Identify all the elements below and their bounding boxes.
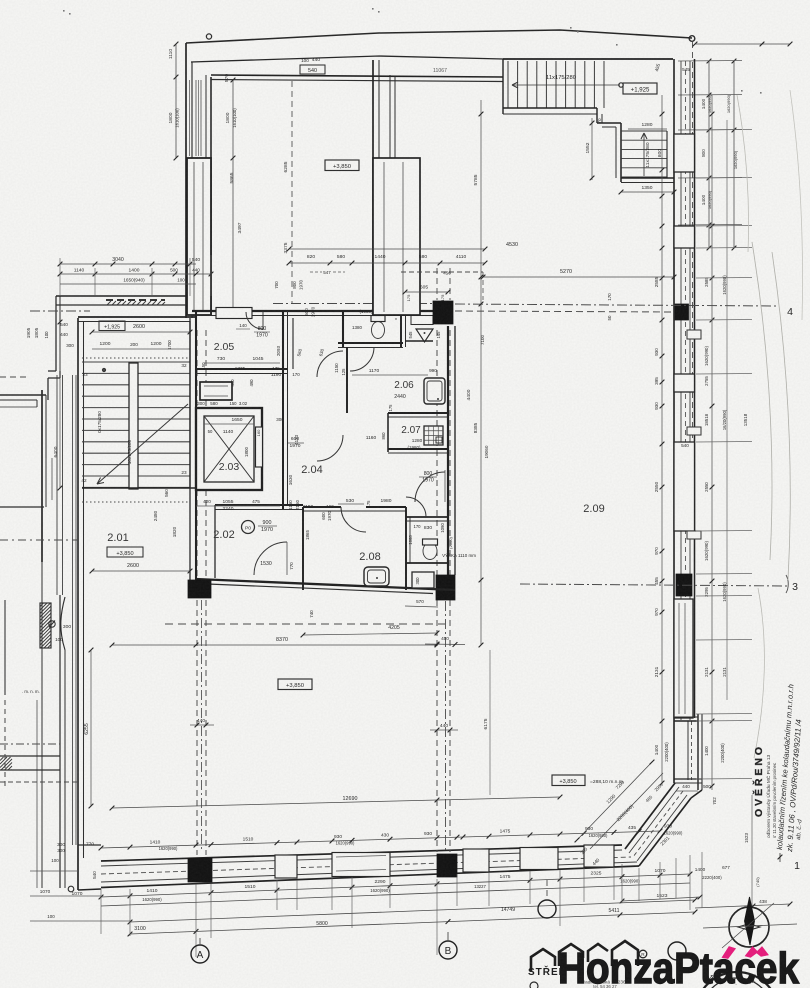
stair treads xyxy=(82,361,190,363)
stair dot marker xyxy=(102,368,105,371)
small stair arrow xyxy=(643,133,645,176)
bottom vertical extension lines xyxy=(100,889,102,934)
chamfer band line3 xyxy=(637,795,687,861)
extension lines above stairs xyxy=(59,258,61,296)
right wall outer face xyxy=(694,59,696,718)
column grid A mid xyxy=(188,580,211,598)
grid bubble C behind logo xyxy=(668,942,686,960)
chamfer band dashed center xyxy=(633,791,683,857)
grid axis 4 dash-dot right segment xyxy=(455,304,778,306)
page fold curve 2 xyxy=(772,252,790,580)
grid axis 4 dash-dot left segment xyxy=(30,310,90,312)
terrace left wall xyxy=(502,59,504,114)
upper annex wall dashes xyxy=(106,299,165,301)
bottom wall left corner xyxy=(77,845,79,890)
grid axis A dashed pair xyxy=(196,330,198,855)
grid bubble B xyxy=(439,941,457,959)
grid bubble A xyxy=(191,945,209,963)
bottom dim row B xyxy=(101,874,690,897)
west upper wall line 3 xyxy=(205,75,207,158)
west upper wall outer line xyxy=(185,43,187,318)
wc top right wall xyxy=(400,311,402,347)
second dash line grid4 xyxy=(455,311,674,312)
west wall inner xyxy=(83,322,85,858)
dimension line 4530 xyxy=(289,248,485,250)
elevation box +3,850 room 2.01 xyxy=(107,547,143,557)
door arc wc top xyxy=(350,347,374,371)
page fold curve 3 xyxy=(737,95,749,252)
elevation box +1,925 terrace xyxy=(623,83,657,94)
neighbour wall hatch block xyxy=(40,603,51,648)
room 2.07 bottom wall xyxy=(388,448,448,450)
diagonal dim line 1 xyxy=(577,762,652,840)
window pier 3 xyxy=(674,374,695,392)
dimension 540 boxed xyxy=(300,65,325,74)
scan noise overlay xyxy=(0,0,1,1)
stair walk line diagonal xyxy=(97,404,188,484)
washing machine grid xyxy=(424,426,443,445)
site boundary line inner xyxy=(191,56,503,62)
door arc room 2.05 xyxy=(246,312,263,329)
window sill marker 3 xyxy=(687,531,701,539)
wall below bath xyxy=(346,347,348,413)
dimension row 1650(940) xyxy=(60,283,196,285)
window sill marker 2 xyxy=(687,427,701,435)
right wall inner face xyxy=(673,59,675,783)
door arc bath lower xyxy=(317,435,343,461)
wc top bottom wall xyxy=(338,342,403,344)
stair tread edge right xyxy=(189,321,191,488)
dashed opening 456 xyxy=(401,271,483,273)
west annex line 1 xyxy=(59,595,61,888)
right wall dashed centre xyxy=(685,61,687,718)
grid axis A dash-dot centre lower xyxy=(201,600,203,852)
window pier 5 xyxy=(674,599,693,718)
stair arrow start circle xyxy=(619,83,623,87)
room 2.07 left wall xyxy=(387,413,389,452)
toilet bottom wc xyxy=(423,543,437,560)
grid axis B dash-dot below xyxy=(445,601,447,852)
stair lower dotted line xyxy=(82,501,190,503)
duct shaft xyxy=(200,382,232,400)
right dim column b (terrace) xyxy=(733,61,735,248)
gap wall lines between buildings xyxy=(72,375,74,845)
elevation box +1,925 stair xyxy=(99,321,125,331)
core top wall xyxy=(192,310,433,312)
neighbour building right wall west xyxy=(41,390,43,562)
wc top left wall xyxy=(342,311,344,347)
window jamb lines lower right xyxy=(687,721,689,780)
page fold curve 5 xyxy=(790,90,803,320)
dashed axis x292 xyxy=(291,81,293,303)
bottom wall inner line2 xyxy=(101,862,637,882)
elevation box +3,850 right hall xyxy=(552,775,585,786)
elevator shaft outer wall xyxy=(196,408,262,490)
room 2.07 top wall xyxy=(388,412,448,414)
site boundary line outer xyxy=(186,30,692,43)
window pier 1 xyxy=(674,134,695,172)
diagonal dim line 2 xyxy=(590,773,663,849)
top wall inner line xyxy=(211,80,503,82)
right wall line2 xyxy=(680,61,682,720)
chamfer wall inner line xyxy=(625,783,675,849)
door arc wc bottom xyxy=(406,497,426,517)
neighbour fragment lower west xyxy=(0,743,60,745)
elevation box +3,850 top xyxy=(325,160,359,171)
stair treads upper run xyxy=(507,61,509,108)
top mid wall pier xyxy=(373,158,420,315)
bottom wall window box 4 xyxy=(520,848,558,870)
dimension 5270 xyxy=(483,276,674,278)
logo pink acute accent xyxy=(722,947,736,959)
west annex jog curve xyxy=(61,597,65,650)
right dim column 2 xyxy=(711,95,713,790)
wc bottom walls xyxy=(406,516,448,518)
dimension column right of wall xyxy=(232,80,234,315)
bottom wall top line xyxy=(101,845,622,861)
bottom wall bottom line xyxy=(101,866,639,888)
wall jog at window xyxy=(674,716,698,718)
dimension column left of wall xyxy=(175,44,177,158)
column right wall grid4 xyxy=(675,304,689,320)
compass needle xyxy=(745,897,755,945)
small stair bottom wall xyxy=(621,177,674,179)
door arc 2.08 xyxy=(341,507,366,532)
dimension row 820 580 1440 580 4110 xyxy=(289,262,485,264)
core bottom wall xyxy=(196,579,455,590)
corner circle bottom left xyxy=(68,886,74,892)
sink 2.08 xyxy=(364,567,389,586)
bottom wall window box 5 xyxy=(584,845,614,867)
wall segment between 2.05 and wc xyxy=(292,318,294,369)
bottom dim row C 14749 xyxy=(130,900,695,922)
room 2.02 top wall xyxy=(215,504,303,506)
small stair right border xyxy=(666,131,668,178)
dashed line west y540 xyxy=(0,539,78,541)
compass circle xyxy=(729,907,769,947)
window sill lines xyxy=(674,778,702,780)
core left wall xyxy=(189,318,191,582)
window pier 4 xyxy=(674,442,695,531)
right dim column main xyxy=(661,95,663,786)
dimension row 3040 xyxy=(60,263,196,265)
compass diagonal line xyxy=(722,903,774,948)
column grid B bottom xyxy=(437,854,457,877)
column core bottom right grid B xyxy=(436,575,455,600)
dashed line lower west xyxy=(0,781,78,783)
neighbour vertical continuation xyxy=(45,458,47,505)
stair dotted landing line xyxy=(82,357,190,359)
small stair treads xyxy=(621,130,667,132)
room 2.08 right wall xyxy=(405,507,407,590)
dimension 8370 xyxy=(112,644,437,646)
west upper wall line 2 xyxy=(191,62,193,318)
dashed hall line y624 xyxy=(165,623,445,625)
scan specks top xyxy=(63,10,65,12)
small stair left wall xyxy=(620,123,622,182)
boundary marker circle xyxy=(206,34,211,39)
west upper wall pier rect xyxy=(187,158,211,315)
compass star xyxy=(738,916,760,938)
stamp firm registered mark xyxy=(639,950,647,958)
core top wall window xyxy=(216,308,252,319)
right dim column a (terrace) xyxy=(708,61,710,248)
dimension row 1140 1400 500 440 xyxy=(60,273,211,275)
small circle S1 xyxy=(530,982,538,988)
bottom wall dashed core line xyxy=(101,857,631,874)
dimension 4205 xyxy=(303,633,437,635)
room 2.08 left wall xyxy=(302,507,304,590)
grid axis 4 dash-dot middle segment xyxy=(273,303,433,305)
grid axis B dashed above core xyxy=(436,268,438,300)
neighbour wall corner block xyxy=(47,378,49,400)
door arc 2.02 xyxy=(254,542,287,575)
compass cross line horizontal xyxy=(703,924,797,928)
column core top right grid B xyxy=(433,301,453,324)
bottom wall window box 2 xyxy=(332,853,390,877)
elevation box +3,850 hall xyxy=(278,679,312,690)
terrace wall step xyxy=(596,108,598,123)
shower room walls xyxy=(405,340,433,342)
page fold curve 1 xyxy=(752,242,772,560)
bottom dim row B2 xyxy=(101,883,690,906)
boundary corner circle xyxy=(689,36,695,42)
right extension lines xyxy=(696,129,752,132)
neighbour building top wall west xyxy=(0,394,46,396)
page edge line west xyxy=(4,600,6,695)
bottom dim row A xyxy=(101,831,660,848)
page fold curve 4 xyxy=(754,588,764,758)
bottom wall window box 1 xyxy=(275,855,297,878)
elevator counterweight xyxy=(256,427,263,467)
bottom dim 1523 xyxy=(622,897,700,901)
grid axis B dashed pair xyxy=(436,330,438,852)
door arc bath upper xyxy=(317,351,343,377)
top wall outer line xyxy=(211,75,503,77)
stair run lower border wall xyxy=(503,107,597,109)
room 2.05 right wall xyxy=(282,311,284,373)
dashed segment west y377 xyxy=(0,376,30,378)
stair bottom wall xyxy=(82,487,196,489)
bottom wall top line2 xyxy=(101,850,622,866)
core right wall xyxy=(447,326,449,575)
west outer neighbour line xyxy=(41,562,43,888)
top right dimension line xyxy=(695,43,790,45)
neighbour building bottom wall west xyxy=(0,506,44,508)
terrace top wall xyxy=(503,58,673,60)
west upper wall inner line xyxy=(210,77,212,315)
grid axis 3 dash-dot xyxy=(520,584,788,586)
upper annex wall band xyxy=(56,295,186,297)
room 2.08 top wall xyxy=(303,506,341,508)
west wall outer xyxy=(77,318,79,845)
column right wall grid3 xyxy=(676,574,692,596)
dimension 12690 xyxy=(112,797,560,808)
dimension 605 xyxy=(405,291,448,293)
shower triangle symbol xyxy=(416,329,433,342)
room 2.05 bottom wall xyxy=(196,368,287,370)
room 2.02 left wall xyxy=(214,505,216,578)
right side extension lines top xyxy=(678,60,742,63)
diameter symbol xyxy=(49,621,55,627)
door arc top right core 800/1970 xyxy=(415,472,445,502)
stair stringer xyxy=(129,363,138,489)
grid bubble diagonal axis xyxy=(538,900,556,918)
column grid A bottom xyxy=(188,858,212,882)
right wall line3 xyxy=(689,61,691,720)
elevator cabin xyxy=(204,416,254,482)
stamp firm houses logo xyxy=(531,949,555,972)
stamp round bottom xyxy=(695,972,779,988)
west annex line 2 xyxy=(64,650,66,888)
bottom wall window box 3 xyxy=(463,849,489,872)
interior dim vertical x481 xyxy=(480,100,482,645)
window sill marker 1 xyxy=(687,330,701,339)
stair hall top wall xyxy=(78,316,196,318)
bathtub xyxy=(424,378,445,404)
shower niche rect xyxy=(411,316,433,325)
bottom dim 438 xyxy=(695,904,790,908)
corridor left wall lower xyxy=(282,373,284,509)
west upper wall shading xyxy=(195,80,197,156)
logo pink caron accent xyxy=(745,947,758,958)
toilet top wc xyxy=(372,322,385,339)
elevator cross xyxy=(204,416,254,482)
top mid wall band xyxy=(372,60,374,315)
right dim column 3 xyxy=(726,120,728,700)
bottom dim row D 3100 5800 5411 xyxy=(130,912,695,934)
window pier 2 xyxy=(674,226,695,248)
chamfer band line2 xyxy=(629,787,679,853)
chamfer wall outer line xyxy=(639,798,691,866)
door circle P0 xyxy=(242,521,255,534)
niche 300 below wc xyxy=(412,572,434,588)
stair direction arrow xyxy=(512,84,620,86)
boundary dashed vertical right xyxy=(692,42,694,500)
